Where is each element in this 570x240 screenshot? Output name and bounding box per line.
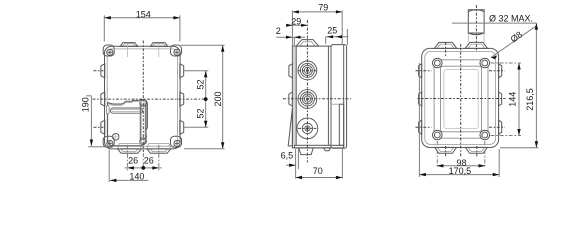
svg-text:144: 144 [508,92,518,107]
svg-text:200: 200 [213,91,223,106]
svg-text:52: 52 [195,79,205,89]
svg-text:Ø 32 MAX.: Ø 32 MAX. [489,14,533,24]
svg-text:154: 154 [136,10,151,20]
svg-text:216,5: 216,5 [525,88,535,111]
svg-text:29: 29 [291,16,301,26]
svg-text:6,5: 6,5 [281,151,294,161]
svg-text:79: 79 [318,3,328,13]
svg-text:170,5: 170,5 [449,166,472,176]
svg-text:140: 140 [129,171,144,181]
svg-text:52: 52 [195,108,205,118]
svg-text:70: 70 [313,166,323,176]
svg-text:25: 25 [327,26,337,36]
svg-text:190: 190 [80,97,90,112]
svg-text:26: 26 [128,156,138,166]
svg-text:26: 26 [144,156,154,166]
svg-text:2: 2 [276,26,281,36]
